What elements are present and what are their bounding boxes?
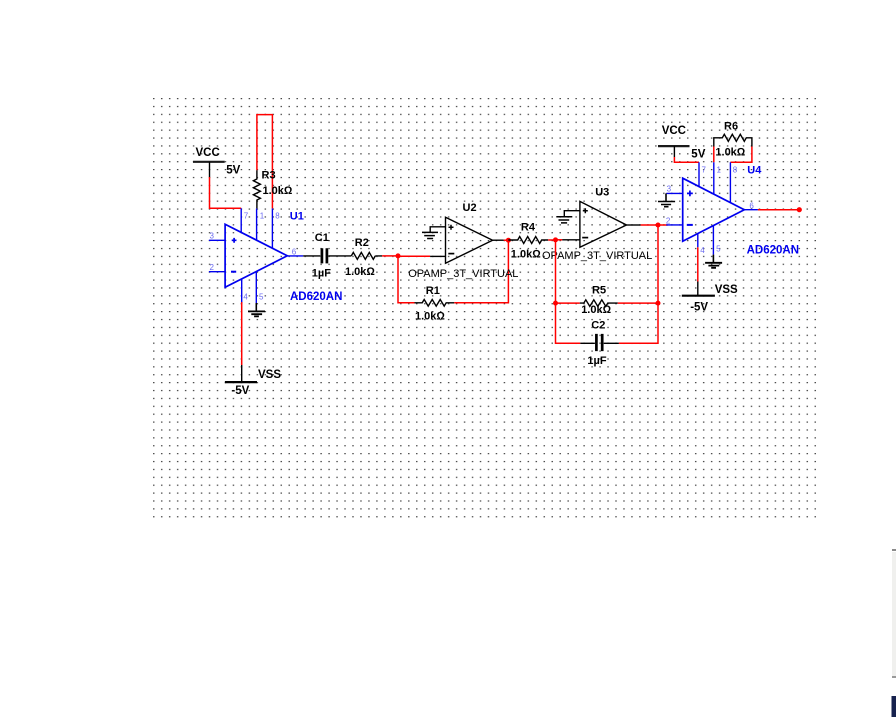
svg-text:OPAMP_3T_VIRTUAL: OPAMP_3T_VIRTUAL — [542, 250, 652, 262]
svg-text:VCC: VCC — [196, 147, 220, 159]
svg-text:5V: 5V — [691, 148, 705, 160]
U2 plus input wire — [430, 227, 445, 233]
svg-text:AD620AN: AD620AN — [290, 291, 342, 303]
svg-text:C2: C2 — [591, 320, 605, 332]
ground at U3 plus — [556, 217, 572, 223]
U1 pin 2 (-) — [209, 263, 236, 272]
svg-text:VCC: VCC — [662, 125, 686, 137]
svg-text:R2: R2 — [355, 237, 369, 249]
U4 pin 8 — [730, 162, 737, 202]
svg-text:5V: 5V — [226, 165, 240, 177]
svg-text:VSS: VSS — [715, 284, 738, 296]
svg-text:5: 5 — [259, 293, 264, 302]
op-amp U3 triangle — [580, 201, 627, 247]
svg-text:1µF: 1µF — [312, 267, 331, 279]
svg-text:8: 8 — [275, 211, 280, 220]
wire C2 left branch — [556, 303, 581, 343]
svg-text:R1: R1 — [426, 285, 440, 297]
svg-text:1: 1 — [260, 211, 265, 220]
svg-text:6: 6 — [749, 201, 754, 210]
svg-text:5: 5 — [716, 244, 721, 253]
U3 output lead — [627, 224, 641, 226]
wire U3 out to node D — [641, 224, 658, 226]
op-amp U2 triangle — [446, 217, 493, 263]
svg-text:U1: U1 — [290, 211, 304, 223]
svg-text:C1: C1 — [315, 232, 329, 244]
wire node A to U2 minus — [398, 255, 430, 257]
power VSS (right, -5V) — [682, 282, 738, 314]
op-amp U4 triangle — [683, 178, 745, 241]
wire to R5 left lead — [556, 302, 580, 304]
wire VCC to U4 pin 7 — [674, 157, 699, 162]
U1 pin 5 — [256, 272, 264, 303]
svg-text:1.0kΩ: 1.0kΩ — [263, 185, 293, 197]
U2 output lead — [493, 239, 504, 241]
ground under U4 pin 5 — [705, 263, 722, 268]
wire node C to U3 minus — [556, 239, 563, 241]
resistor R2 — [345, 237, 382, 278]
junction node C — [553, 237, 558, 242]
wire node C down to R5 left — [555, 240, 557, 303]
svg-text:VSS: VSS — [258, 369, 281, 381]
wire R2 to node A — [382, 255, 398, 257]
label U4 — [747, 165, 762, 177]
wire C2 right branch — [619, 303, 658, 343]
U1 pin 4 — [242, 279, 249, 303]
power VSS (left, -5V) — [225, 365, 281, 397]
svg-text:6: 6 — [292, 248, 297, 257]
power VCC (right, 5V) — [658, 125, 706, 161]
svg-text:R4: R4 — [521, 221, 536, 233]
wire U2 out to node B — [504, 239, 509, 241]
U3 minus input wire — [562, 239, 580, 241]
svg-text:R3: R3 — [262, 169, 276, 181]
U1 pin 6 output stub — [287, 248, 303, 257]
wire R6 right to U4 pin 8 — [730, 147, 752, 163]
U1 pin 3 (+) — [209, 231, 237, 242]
svg-text:2: 2 — [210, 263, 215, 272]
label U2 — [463, 202, 477, 214]
ground under U1 pin 5 — [248, 303, 265, 316]
label U1 — [290, 211, 304, 223]
op-amp U1 triangle — [225, 224, 287, 287]
wire node D to U4 pin 2 — [658, 224, 668, 226]
svg-text:R6: R6 — [724, 120, 738, 132]
svg-text:OPAMP_3T_VIRTUAL: OPAMP_3T_VIRTUAL — [408, 268, 518, 280]
wire node D down to R5 right — [657, 225, 659, 303]
svg-text:7: 7 — [244, 211, 249, 220]
label U3 — [595, 186, 609, 198]
label OPAMP_3T_VIRTUAL (U3) — [542, 250, 652, 262]
svg-text:1.0kΩ: 1.0kΩ — [415, 310, 445, 322]
wire U4 output — [758, 209, 799, 211]
ground at U4 pin 3 — [658, 193, 675, 206]
output terminal dot — [797, 207, 802, 212]
U4 pin 3 (+) — [666, 185, 693, 197]
wire R6 left to U4 pin 1 — [713, 147, 715, 163]
power VCC (left, 5V) — [193, 147, 241, 177]
svg-text:1.0kΩ: 1.0kΩ — [345, 266, 375, 278]
wire node A down to R1 — [398, 256, 415, 303]
label OPAMP_3T_VIRTUAL (U2) — [408, 268, 518, 280]
resistor R6 — [714, 120, 752, 158]
label AD620AN (U1) — [290, 291, 342, 303]
ground at U2 plus — [422, 232, 438, 238]
svg-text:AD620AN: AD620AN — [747, 244, 799, 256]
label AD620AN (U4) — [747, 244, 799, 256]
wire R1 to U2 output node — [454, 240, 508, 303]
svg-text:3: 3 — [210, 231, 215, 240]
junction node A — [396, 253, 401, 258]
U4 pin 4 — [698, 234, 705, 255]
U1 pin 8 — [272, 208, 280, 248]
wire U1 pin 4 to VSS — [241, 302, 243, 365]
svg-text:8: 8 — [733, 166, 738, 175]
capacitor C1 — [312, 232, 352, 279]
svg-text:4: 4 — [243, 293, 248, 302]
capacitor C2 — [580, 320, 619, 367]
svg-text:1.0kΩ: 1.0kΩ — [581, 304, 611, 316]
svg-text:4: 4 — [700, 246, 705, 255]
scrollbar fragment right edge — [892, 549, 896, 717]
wire R4 to node C — [548, 239, 555, 241]
svg-text:-5V: -5V — [231, 385, 249, 397]
svg-text:1: 1 — [717, 166, 722, 175]
wire VCC to U1 pin 7 — [210, 177, 242, 208]
svg-text:R5: R5 — [592, 285, 606, 297]
resistor R5 — [580, 285, 618, 317]
U2 minus input wire — [430, 255, 445, 257]
svg-text:1.0kΩ: 1.0kΩ — [715, 146, 745, 158]
junction node D — [656, 223, 661, 228]
wire U1 out to C1 — [303, 255, 320, 257]
wire R5 right lead to node — [618, 302, 658, 304]
resistor R1 — [415, 285, 455, 322]
svg-text:U3: U3 — [595, 186, 609, 198]
junction R5 right — [656, 301, 661, 306]
svg-text:2: 2 — [666, 216, 671, 225]
U1 pin 7 — [241, 208, 249, 232]
U4 pin 2 (-) — [666, 216, 693, 225]
U3 plus symbol — [583, 208, 588, 213]
U2 minus symbol — [448, 253, 454, 255]
resistor R3 — [253, 169, 293, 208]
wire R3 loop pin1-top to pin8 — [257, 115, 273, 209]
svg-text:U2: U2 — [463, 202, 477, 214]
U1 pin 1 — [257, 208, 265, 240]
svg-text:3: 3 — [667, 185, 672, 194]
U4 pin 5 — [713, 226, 721, 263]
U2 plus symbol — [449, 225, 454, 230]
wire U4 pin 4 to VSS — [697, 247, 699, 281]
junction R5 left — [553, 301, 558, 306]
U4 pin 1 — [714, 162, 722, 193]
U3 plus input wire — [564, 211, 580, 217]
resistor R4 — [508, 221, 548, 260]
svg-text:1.0kΩ: 1.0kΩ — [511, 249, 541, 261]
svg-text:1µF: 1µF — [587, 355, 606, 367]
junction node B — [506, 238, 511, 243]
svg-text:-5V: -5V — [690, 301, 708, 313]
U4 pin 7 — [699, 162, 707, 187]
svg-text:U4: U4 — [747, 165, 762, 177]
U3 minus symbol — [582, 237, 588, 239]
svg-text:7: 7 — [702, 166, 707, 175]
U4 pin 6 output — [744, 201, 758, 210]
